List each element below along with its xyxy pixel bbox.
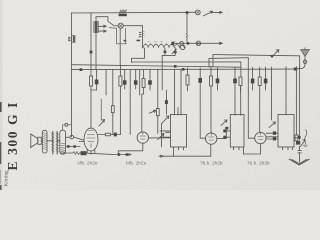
tube V4 (demod triode) envelope [206, 133, 217, 144]
wire drop x299.4 below bus [298, 67, 300, 140]
field coil [42, 130, 47, 153]
scan edge artifact bottom left [0, 170, 2, 184]
V3 left vertical [161, 124, 163, 148]
resistor R11 small right [295, 135, 298, 141]
wire to V3 grid [166, 131, 171, 133]
capacitor C8 [252, 67, 254, 78]
transformer bottom lead [95, 33, 97, 70]
wire drop x271.5 [271, 67, 273, 120]
switch arm after V2 [158, 134, 164, 140]
rating dash [137, 40, 141, 42]
resistor R2 [119, 65, 121, 76]
coupling capacitor C10 [114, 133, 117, 137]
switch arrow at V5 [221, 120, 227, 126]
tube V2 (triode) envelope [137, 132, 148, 143]
switch arrow at V7 [269, 122, 276, 128]
transformer secondary frame [60, 130, 66, 154]
L54 left drop [212, 55, 214, 67]
cathode rail under V3 [164, 155, 211, 157]
wire lower with junction dots [66, 146, 80, 148]
diagonal mark below terminal [172, 49, 176, 53]
wire taps to heater coil [141, 26, 144, 48]
junction dot top bus x187 [186, 11, 189, 14]
V2 cathode drop [118, 143, 143, 154]
dial lamp L2 on top bus [195, 10, 200, 15]
scan edge artifact left lower [0, 142, 1, 164]
cathode link under V5 [244, 144, 261, 154]
V5 top leads [235, 83, 241, 115]
wire: vertical x187 with fuse [186, 12, 188, 41]
scan edge artifact left middle [0, 102, 2, 112]
wire drop x130 [129, 69, 131, 134]
heater winding bumps [143, 45, 184, 48]
mains choke core bar [119, 14, 127, 16]
tube V1 (AK2) envelope [84, 128, 98, 151]
speaker cone [31, 134, 38, 148]
junction dot phono line [187, 42, 190, 45]
capacitor C2 [124, 70, 126, 81]
wire drop x140 [139, 69, 141, 95]
V4 anode wire right [217, 129, 226, 138]
wire: vertical x91 [90, 13, 92, 70]
speaker driver [38, 137, 42, 144]
V3 top leads [175, 70, 182, 115]
transformer winding bar [95, 22, 98, 33]
tube V3 (IF pentode) envelope [171, 115, 187, 148]
capacitor C9 [265, 67, 267, 79]
capacitor C15 at V7 bottom [296, 141, 300, 145]
wire drop x296.4 [295, 67, 297, 135]
resistor R8 [239, 77, 242, 86]
flexible pickup lead [304, 130, 308, 147]
capacitor C4 [149, 69, 151, 80]
capacitor C11 under V1 [81, 151, 87, 155]
switch arrow at V3 [162, 116, 170, 124]
antenna coupling circle [303, 60, 306, 63]
junction dot rail B x183 [182, 68, 185, 71]
V7 bottom leads [283, 147, 293, 150]
wave switch on L54 [272, 50, 279, 57]
V1 cathode drop [87, 150, 95, 155]
cathode line under V1/V2 [113, 154, 132, 156]
wire lamp L1 to right [123, 25, 142, 27]
coil tap letters [148, 41, 182, 43]
V1 left wire [79, 141, 84, 143]
junction dot ground bus left [80, 68, 83, 71]
antenna lead [297, 56, 305, 69]
phono terminal block [171, 42, 174, 46]
voltage selector arrow 2 [98, 30, 106, 32]
tube V7 (rectifier) envelope [278, 115, 294, 148]
interconnect L54 [213, 55, 299, 56]
V4 electrodes [209, 133, 215, 140]
output transformer windings [53, 132, 57, 155]
resistor R9 [259, 67, 261, 77]
V6 anode wires to V7 with caps [266, 133, 273, 139]
dial lamp L1 [118, 23, 123, 28]
junction dots cathode line [118, 153, 121, 156]
earth switch contacts [298, 150, 301, 152]
paper texture overlay [0, 0, 320, 190]
resistor R3 [143, 69, 145, 78]
jack circle upper [180, 42, 184, 46]
voltage selector block on left vertical [72, 35, 75, 42]
earth lead [299, 147, 301, 162]
V3 grid feed wire [165, 90, 167, 114]
heater tap drop left [162, 48, 175, 56]
L57 right drop to tube V6 [248, 58, 254, 139]
wire speaker to V1 [66, 137, 84, 140]
capacitor C16 on V3 grid feed [165, 100, 168, 104]
tube V6 (triode) envelope [255, 132, 266, 143]
wire to mains plug arrow [213, 11, 223, 13]
junction dot rail A x175 [174, 65, 177, 68]
speaker top wire [71, 130, 73, 137]
resistor R7 [210, 66, 212, 76]
capacitor C14 [273, 137, 276, 140]
voltage selector arrow 1 [98, 25, 106, 27]
mains choke hatching [119, 10, 126, 13]
lamp L1 drop to bus1 [119, 28, 121, 65]
heater tap junction dots [164, 51, 167, 54]
wire drop x286 to output tube [285, 67, 287, 115]
junction dot x91 [90, 51, 93, 54]
wire: left vertical main [71, 13, 73, 130]
mains switch arm top right [203, 11, 213, 16]
V3 bottom leads [174, 147, 184, 156]
tap arrows x142 [139, 32, 142, 38]
junction dot V7 right [298, 136, 301, 139]
tube V5 (output pentode) envelope [230, 115, 244, 148]
left page edge shading [0, 0, 3, 190]
V4 cathode drop to rail [210, 144, 212, 156]
pickup switch diagonal [300, 140, 305, 147]
heater center drop [161, 55, 163, 90]
V1 anode wire with resistor R10 [98, 134, 105, 136]
switch arrow near V1 [99, 120, 105, 126]
interconnect L62 [132, 62, 241, 77]
V6 electrodes [258, 132, 264, 139]
L62 left riser [132, 48, 145, 63]
resistor R6 [187, 68, 189, 75]
jack circle lower [180, 45, 185, 50]
wire drop x106 [105, 69, 107, 95]
V5 bottom leads [234, 147, 244, 154]
tube V1 electrodes [87, 135, 95, 148]
terminal circle top [65, 123, 68, 126]
capacitor C6 [217, 68, 219, 79]
wire drop x112.8 with resistor R13 [112, 69, 114, 105]
wire drop x158 [157, 69, 159, 90]
resistor R1 [90, 70, 92, 77]
V2 anode wire [149, 137, 171, 139]
capacitor C13 [273, 131, 276, 134]
transformer tap loop [109, 28, 126, 44]
capacitor C7 [234, 68, 236, 79]
junction dot x300 bus [294, 68, 297, 71]
speaker link wires [41, 140, 60, 142]
capacitor C3 [135, 69, 137, 80]
V7 left stub [266, 136, 278, 138]
V5 left stubs with caps [226, 131, 230, 137]
coupling circle [70, 135, 74, 139]
rail left arrow [159, 155, 164, 157]
dial lamp L3 on phono line [196, 41, 201, 46]
heater winding tap ticks [146, 43, 182, 45]
interconnect L57 [209, 57, 248, 60]
L57 left drop [208, 58, 210, 67]
resistor R12 zigzag [60, 152, 87, 155]
mains switch arm [108, 21, 118, 26]
phono line [174, 42, 223, 44]
capacitor C12 small [225, 127, 228, 130]
fuse squiggle [186, 33, 188, 37]
V3 left stub [160, 131, 171, 137]
wire: top mains bus [72, 11, 196, 14]
capacitor C1 [96, 69, 98, 79]
main ground bus [72, 68, 296, 71]
wire x300 drop [299, 56, 301, 68]
resistor R5 vertical with arrow [157, 90, 159, 109]
bus line 1 [72, 65, 242, 68]
wire stub x101 [100, 99, 102, 120]
antenna symbol [301, 50, 310, 57]
V7 right wire [294, 137, 299, 139]
transformer top loop wire [96, 17, 108, 22]
V2 electrodes [140, 132, 146, 139]
title text Körting E 300 G I (rotated) [4, 101, 20, 187]
capacitor C5 [199, 68, 201, 78]
earth symbol [289, 159, 309, 165]
